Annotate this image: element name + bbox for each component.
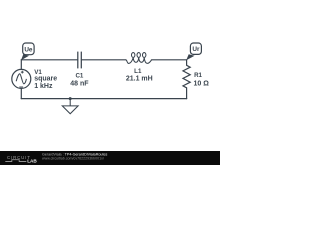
svg-text:LAB: LAB [27,159,37,164]
svg-text:48 nF: 48 nF [70,80,89,87]
watermark logo squiggle [5,160,26,162]
svg-text:1 kHz: 1 kHz [34,83,53,90]
watermark bar [0,151,220,165]
svg-text:Ue: Ue [24,46,33,53]
svg-text:21.1 mH: 21.1 mH [126,75,153,82]
capacitor C1 [78,52,82,69]
voltage source V1 [12,69,31,88]
wire bottom rail [21,98,186,100]
wire left vertical top [20,60,22,70]
node flag Ur [186,43,201,60]
svg-text:www.circuitlab.com/cv7622293bb: www.circuitlab.com/cv7622293bb001x/ [42,156,104,160]
wire top rail right [152,59,187,61]
wire left vertical bottom [20,88,22,98]
inductor L1 [126,53,152,64]
svg-text:Ur: Ur [192,46,200,53]
svg-text:10 Ω: 10 Ω [194,80,210,87]
svg-text:C1: C1 [75,72,83,79]
svg-text:square: square [34,76,57,83]
svg-text:R1: R1 [194,72,202,79]
wire top rail mid [81,59,125,61]
svg-text:L1: L1 [134,68,142,75]
node flag Ue [21,43,34,60]
wire right vertical bottom [186,88,188,99]
junction node at ground [69,97,72,100]
ground [62,99,78,114]
wire right vertical top [186,60,188,66]
wire top rail left [21,59,77,61]
resistor R1 [183,65,190,88]
